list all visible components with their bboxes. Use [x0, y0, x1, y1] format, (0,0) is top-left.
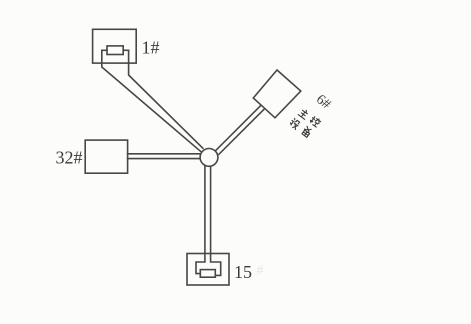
hand-drawn glyph 主 (rotated label line 2, char 1)	[298, 108, 309, 119]
wire pair from 1# box to hub (left conductor)	[102, 50, 201, 151]
wire pair from 32# box to hub (lower conductor)	[128, 158, 201, 160]
terminator resistor inside 1# (right lead)	[123, 49, 128, 51]
device box 6# (rotated square, master control)	[253, 70, 300, 118]
svg-text:15: 15	[234, 262, 252, 282]
wire pair from hub down into 15 box (left conductor)	[196, 166, 205, 274]
wire pair from hub to 6# master box (upper conductor)	[215, 106, 260, 151]
wire pair from 32# box to hub (upper conductor)	[128, 153, 201, 155]
hand-drawn glyph 备 (rotated label line 3, char 2)	[301, 126, 312, 137]
svg-text:32#: 32#	[56, 148, 83, 168]
device box 32#	[85, 140, 127, 173]
hand-drawn glyph 控 (rotated label line 2, char 2)	[309, 115, 321, 127]
hub node (star center circle)	[200, 149, 218, 167]
svg-text:#: #	[257, 264, 264, 279]
device box 1#	[93, 29, 137, 63]
terminator resistor inside 1# (left lead)	[102, 49, 107, 51]
wire pair from 1# box to hub (right conductor)	[129, 50, 203, 148]
svg-text:1#: 1#	[142, 38, 160, 58]
hand-drawn glyph 设 (rotated label line 3, char 1)	[289, 118, 301, 130]
wire pair from hub to 6# master box (lower conductor)	[219, 109, 264, 154]
terminator resistor inside 1# (body)	[107, 46, 123, 55]
svg-text:6#: 6#	[313, 92, 333, 112]
terminator resistor inside 15 (body)	[200, 270, 215, 278]
device box 15	[187, 254, 229, 286]
wire pair from hub down into 15 box (right conductor)	[211, 166, 221, 275]
